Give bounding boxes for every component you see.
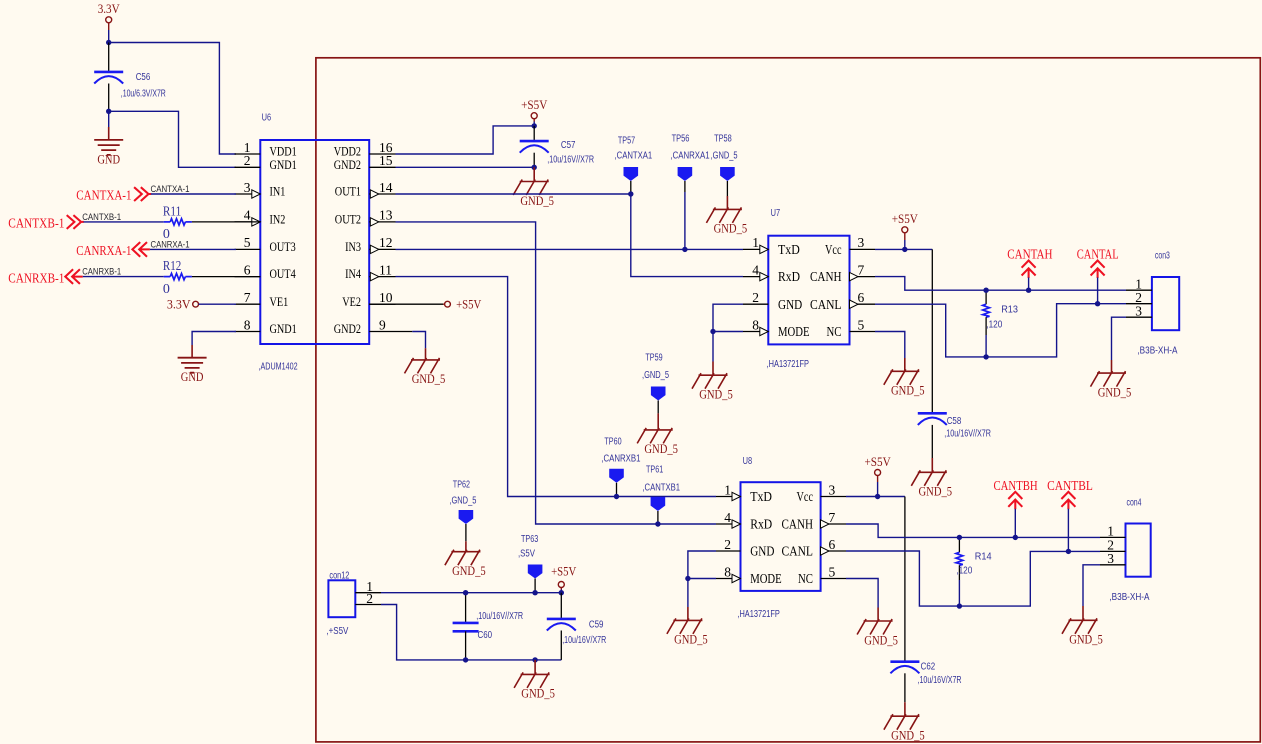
wire U6 pin8 to GND — [192, 332, 236, 346]
U6 right pin stubs and numbers — [369, 153, 395, 155]
svg-text:TP58: TP58 — [714, 133, 732, 144]
svg-text:IN1: IN1 — [270, 185, 286, 199]
svg-text:15: 15 — [379, 153, 393, 168]
svg-text:7: 7 — [244, 290, 251, 305]
wire U8 CANL detour to con4 pin2 — [846, 551, 1100, 606]
svg-text:MODE: MODE — [750, 571, 782, 586]
svg-text:CANTXB-1: CANTXB-1 — [8, 215, 64, 230]
svg-text:TxD: TxD — [750, 489, 772, 504]
svg-text:9: 9 — [379, 317, 386, 332]
svg-text:C57: C57 — [561, 140, 576, 151]
svg-text:3: 3 — [244, 180, 251, 195]
wire U6 pin12 to U7 TxD with TP56 tap — [396, 248, 744, 250]
svg-text:CANTBL: CANTBL — [1047, 478, 1093, 493]
svg-text:OUT3: OUT3 — [270, 240, 296, 254]
wire 3.3V to C56 and U6 pin1 — [108, 30, 110, 43]
svg-text:+S5V: +S5V — [892, 211, 919, 226]
svg-text:IN3: IN3 — [345, 240, 361, 254]
svg-text:IN2: IN2 — [270, 213, 286, 227]
node C60 top — [463, 590, 468, 595]
svg-text:,10u/16V//X7R: ,10u/16V//X7R — [944, 429, 991, 440]
svg-text:R14: R14 — [975, 551, 992, 562]
node +S5V junction (con12) — [559, 590, 564, 595]
svg-text:VE2: VE2 — [342, 295, 361, 309]
svg-text:GND: GND — [778, 297, 802, 312]
svg-text:1: 1 — [724, 482, 731, 497]
con4 pin 1 — [1100, 536, 1126, 538]
svg-text:14: 14 — [379, 180, 393, 195]
ground GND_5 (TP58) — [726, 196, 728, 209]
svg-text:2: 2 — [244, 153, 251, 168]
wire con12 pin2 rail GND — [381, 605, 561, 660]
svg-text:GND_5: GND_5 — [891, 383, 925, 398]
ground GND_5 (C62) — [904, 702, 906, 716]
svg-text:TP57: TP57 — [618, 135, 636, 146]
svg-text:R12: R12 — [163, 258, 181, 273]
node +S5V/C57 junction — [532, 123, 537, 128]
svg-text:C60: C60 — [478, 630, 493, 641]
ground GND (U6 pin8) — [178, 358, 207, 373]
svg-text:TP63: TP63 — [521, 534, 539, 545]
node R14 top — [957, 535, 962, 540]
U6 pin 14 output arrow — [370, 190, 379, 198]
ground GND_5 (C58) — [931, 458, 933, 472]
con3 pin 1 — [1126, 289, 1152, 291]
resistor R14 — [958, 537, 960, 552]
U6 pin 13 output arrow — [370, 218, 379, 226]
node CANTAH junction — [1026, 288, 1031, 293]
svg-text:5: 5 — [244, 235, 251, 250]
svg-text:CANTXB-1: CANTXB-1 — [82, 212, 121, 222]
svg-text:,CANRXA1: ,CANRXA1 — [670, 151, 710, 162]
capacitor C58 — [918, 413, 947, 425]
wire U6 pin16 to +S5V — [396, 126, 535, 154]
svg-text:GND_5: GND_5 — [891, 728, 925, 743]
node Vcc/+S5V junction — [902, 247, 907, 252]
svg-text:GND1: GND1 — [270, 322, 297, 336]
wire R12 to U6 pin6 — [192, 276, 260, 278]
wire Vcc down to C62 — [904, 497, 906, 662]
wire U8 CANH to con4 pin1 — [846, 524, 1100, 537]
svg-text:GND: GND — [97, 152, 120, 166]
svg-text:4: 4 — [244, 208, 251, 223]
ground GND_5 (C57) — [533, 167, 535, 181]
resistor R12 — [164, 276, 171, 278]
node Vcc/+S5V junction (U8) — [875, 494, 880, 499]
wire U7 NC to GND_5 — [875, 332, 905, 359]
svg-text:CANRXB-1: CANRXB-1 — [82, 267, 121, 277]
con3 pin 2 — [1126, 303, 1152, 305]
svg-text:8: 8 — [244, 317, 251, 332]
svg-text:,B3B-XH-A: ,B3B-XH-A — [1137, 345, 1177, 356]
svg-text:RxD: RxD — [778, 269, 800, 284]
op-amp U6 (digital isolator ADUM1402) — [260, 140, 369, 344]
svg-text:,CANTXA1: ,CANTXA1 — [615, 151, 653, 162]
svg-text:U6: U6 — [262, 112, 272, 123]
capacitor C56 — [108, 43, 110, 71]
svg-text:GND_5: GND_5 — [412, 371, 446, 386]
ground GND_5 (TP59) — [637, 428, 673, 444]
svg-text:+S5V: +S5V — [551, 564, 577, 579]
svg-text:3: 3 — [858, 235, 865, 250]
svg-text:con12: con12 — [329, 570, 349, 581]
svg-text:GND_5: GND_5 — [919, 484, 953, 499]
ground GND (C56) — [108, 111, 110, 127]
wire U8 Vcc — [846, 496, 905, 498]
svg-text:NC: NC — [827, 324, 842, 339]
svg-text:,CANRXB1: ,CANRXB1 — [601, 454, 641, 465]
wire net CANTXA-1 — [151, 193, 236, 195]
svg-text:OUT4: OUT4 — [270, 267, 297, 281]
svg-text:OUT2: OUT2 — [335, 213, 361, 227]
svg-text:R13: R13 — [1001, 304, 1018, 315]
svg-text:GND: GND — [181, 370, 204, 384]
svg-text:6: 6 — [244, 262, 251, 277]
node C57 bottom junction — [532, 165, 537, 170]
ground GND_5 (U8 GND/MODE) — [667, 618, 703, 634]
ground GND_5 (U6 pin9) — [405, 358, 441, 374]
svg-text:6: 6 — [829, 537, 836, 552]
svg-text:0: 0 — [163, 282, 170, 297]
svg-text:GND2: GND2 — [334, 158, 361, 172]
svg-text:CANL: CANL — [782, 544, 814, 559]
node TP61 junction — [655, 521, 660, 526]
svg-text:,10u/16V//X7R: ,10u/16V//X7R — [476, 611, 523, 622]
svg-text:MODE: MODE — [778, 324, 810, 339]
node GND_5 rail junction — [532, 657, 537, 662]
svg-text:TP62: TP62 — [453, 479, 471, 490]
svg-text:CANH: CANH — [782, 517, 814, 532]
svg-text:4: 4 — [752, 262, 759, 277]
svg-text:GND1: GND1 — [270, 158, 297, 172]
svg-text:,120: ,120 — [986, 319, 1002, 330]
svg-text:5: 5 — [858, 317, 865, 332]
U6 pin 11 output arrow — [370, 272, 379, 280]
svg-text:IN4: IN4 — [345, 267, 362, 281]
node C56 bottom junction — [106, 109, 111, 114]
op-amp U7 (CAN transceiver HA13721FP) — [768, 236, 849, 345]
connector con12 — [328, 580, 355, 617]
svg-text:C62: C62 — [921, 661, 936, 672]
wire Vcc down to C58 — [931, 249, 933, 413]
connector con3 — [1152, 277, 1179, 330]
node CANTAL junction — [1095, 301, 1100, 306]
svg-text:3: 3 — [1135, 304, 1142, 319]
resistor R11 — [164, 221, 171, 223]
node CANTBL junction — [1066, 549, 1071, 554]
svg-text:5: 5 — [829, 564, 836, 579]
con12 pin 2 — [355, 604, 381, 606]
svg-text:2: 2 — [752, 290, 759, 305]
svg-text:,+S5V: ,+S5V — [326, 626, 348, 637]
svg-text:12: 12 — [379, 235, 393, 250]
svg-text:TP59: TP59 — [645, 353, 663, 364]
svg-text:1: 1 — [1107, 524, 1114, 539]
node TP57 junction — [628, 191, 633, 196]
U6 pin 4 input arrow — [252, 218, 260, 226]
svg-text:,HA13721FP: ,HA13721FP — [737, 609, 780, 620]
svg-text:,S5V: ,S5V — [518, 549, 535, 560]
node TP56 junction — [682, 247, 687, 252]
svg-text:TP61: TP61 — [646, 464, 664, 475]
op-amp U8 (CAN transceiver HA13721FP) — [741, 482, 821, 591]
node R13 top — [983, 288, 988, 293]
wire U7 Vcc — [875, 248, 932, 250]
svg-text:,ADUM1402: ,ADUM1402 — [259, 362, 298, 373]
ground GND_5 (U7 GND/MODE) — [692, 373, 728, 389]
svg-text:2: 2 — [366, 591, 373, 606]
capacitor C60 — [465, 593, 467, 623]
wire net CANTXB-1 to R11 — [84, 221, 164, 223]
svg-text:GND_5: GND_5 — [1098, 384, 1132, 399]
U6 left pin stubs and numbers — [235, 153, 261, 155]
svg-text:GND_5: GND_5 — [644, 441, 678, 456]
svg-text:,10u/16V/X7R: ,10u/16V/X7R — [918, 675, 962, 686]
svg-text:4: 4 — [724, 510, 731, 525]
node C60 bottom — [463, 657, 468, 662]
svg-text:3: 3 — [829, 482, 836, 497]
svg-text:,10u/6.3V/X7R: ,10u/6.3V/X7R — [121, 89, 166, 100]
wire U6 pin9 to GND_5 — [396, 331, 413, 333]
node 3.3V/C56 junction — [106, 40, 111, 45]
ground GND_5 (U8 NC) — [857, 619, 893, 635]
wire U7 CANH to con3 pin1 — [875, 277, 1126, 291]
connector con4 — [1126, 524, 1151, 577]
capacitor C59 — [560, 593, 562, 619]
ground GND_5 (con12 rail) — [534, 660, 536, 675]
resistor R13 — [985, 290, 987, 304]
svg-text:con4: con4 — [1127, 497, 1142, 508]
node TP60 junction — [614, 494, 619, 499]
svg-text:1: 1 — [752, 235, 759, 250]
svg-text:GND_5: GND_5 — [674, 632, 708, 647]
svg-text:,CANTXB1: ,CANTXB1 — [642, 482, 680, 493]
svg-text:13: 13 — [379, 208, 393, 223]
svg-text:con3: con3 — [1155, 250, 1170, 261]
svg-text:11: 11 — [379, 262, 392, 277]
svg-text:CANTXA-1: CANTXA-1 — [76, 188, 131, 203]
svg-text:+S5V: +S5V — [865, 454, 892, 469]
wire U7 CANL detour to con3 pin2 — [875, 304, 1126, 357]
svg-text:,GND_5: ,GND_5 — [642, 370, 669, 381]
node CANTBH junction — [1013, 535, 1018, 540]
wire U6 pin14 to U7 RxD with TP57 tap — [396, 194, 744, 277]
svg-text:8: 8 — [724, 564, 731, 579]
svg-text:CANL: CANL — [810, 297, 842, 312]
svg-text:GND_5: GND_5 — [699, 387, 733, 402]
svg-text:C56: C56 — [136, 72, 151, 83]
wire con12 pin1 rail +S5V — [381, 592, 561, 594]
svg-text:CANRXB-1: CANRXB-1 — [8, 270, 64, 285]
svg-text:TP56: TP56 — [672, 133, 690, 144]
svg-text:GND_5: GND_5 — [1069, 632, 1103, 647]
svg-text:,HA13721FP: ,HA13721FP — [767, 359, 810, 370]
svg-text:C58: C58 — [947, 416, 962, 427]
svg-text:NC: NC — [798, 571, 813, 586]
svg-text:,10u/16V//X7R: ,10u/16V//X7R — [547, 155, 594, 166]
svg-text:CANTAH: CANTAH — [1007, 247, 1053, 262]
svg-text:TP60: TP60 — [604, 436, 622, 447]
wire U6 pin13 down to U8 RxD — [396, 222, 717, 524]
svg-text:GND_5: GND_5 — [864, 632, 898, 647]
svg-text:3.3V: 3.3V — [167, 297, 191, 312]
power symbol +S5V (U6 pin10) — [369, 303, 443, 305]
svg-text:6: 6 — [858, 290, 865, 305]
svg-text:CANRXA-1: CANRXA-1 — [76, 243, 131, 258]
svg-text:U8: U8 — [743, 456, 753, 467]
svg-text:C59: C59 — [589, 619, 604, 630]
svg-text:GND_5: GND_5 — [521, 686, 555, 701]
wire R11 to U6 pin4 — [192, 221, 260, 223]
con4 pin 2 — [1100, 550, 1126, 552]
capacitor C62 — [890, 662, 919, 674]
con12 pin 1 — [355, 592, 381, 594]
svg-text:R11: R11 — [163, 203, 181, 218]
svg-text:GND2: GND2 — [334, 322, 361, 336]
wire con3 pin3 to GND_5 — [1112, 317, 1127, 360]
con4 pin 3 — [1100, 564, 1126, 566]
svg-text:3: 3 — [1107, 551, 1114, 566]
svg-text:CANH: CANH — [810, 269, 842, 284]
svg-text:3.3V: 3.3V — [98, 1, 121, 16]
svg-text:7: 7 — [829, 510, 836, 525]
svg-text:OUT1: OUT1 — [335, 185, 361, 199]
svg-text:TxD: TxD — [778, 242, 800, 257]
svg-text:,GND_5: ,GND_5 — [711, 151, 738, 162]
wire net CANRXA-1 — [150, 248, 236, 250]
svg-text:10: 10 — [379, 290, 393, 305]
svg-text:GND_5: GND_5 — [520, 193, 554, 208]
node R14 bottom — [957, 603, 962, 608]
svg-text:U7: U7 — [771, 208, 781, 219]
svg-text:GND_5: GND_5 — [714, 221, 748, 236]
U6 pin 3 input arrow — [252, 190, 260, 198]
wire U6 pin15 — [396, 166, 535, 168]
wire U6 pin11 down to U8 TxD — [396, 277, 717, 497]
svg-text:Vcc: Vcc — [797, 489, 814, 504]
svg-text:,GND_5: ,GND_5 — [449, 496, 476, 507]
wire net CANRXB-1 to R12 — [83, 276, 164, 278]
wire VE1 — [199, 303, 237, 305]
ground GND_5 (con3) — [1091, 371, 1127, 387]
svg-text:2: 2 — [724, 537, 731, 552]
svg-text:,120: ,120 — [956, 566, 972, 577]
ground GND_5 (U7 NC) — [884, 369, 920, 385]
sheet border frame — [316, 58, 1260, 742]
U6 pin 12 output arrow — [370, 245, 379, 253]
svg-text:VDD1: VDD1 — [270, 145, 297, 159]
ground GND_5 (con4) — [1062, 618, 1098, 634]
svg-text:,10u/16V/X7R: ,10u/16V/X7R — [562, 635, 606, 646]
wire U8 GND/MODE to GND_5 — [688, 551, 716, 579]
wire con4 pin3 to GND_5 — [1083, 565, 1100, 606]
node R13 bottom — [983, 354, 988, 359]
svg-text:7: 7 — [858, 262, 865, 277]
svg-text:RxD: RxD — [750, 517, 772, 532]
ground GND_5 (TP62) — [445, 550, 481, 566]
svg-text:+S5V: +S5V — [456, 297, 482, 312]
capacitor C57 — [533, 126, 535, 140]
con3 pin 3 — [1126, 316, 1152, 318]
svg-text:GND_5: GND_5 — [452, 563, 486, 578]
svg-text:CANRXA-1: CANRXA-1 — [151, 239, 190, 249]
wire U8 NC to GND_5 — [846, 579, 878, 608]
svg-text:CANTXA-1: CANTXA-1 — [151, 184, 190, 194]
wire U7 GND/MODE to GND_5 — [713, 304, 743, 331]
svg-text:VE1: VE1 — [270, 295, 289, 309]
svg-text:8: 8 — [752, 317, 759, 332]
svg-text:GND: GND — [750, 544, 774, 559]
wire C56 bottom to U6 pin2 — [109, 111, 236, 167]
svg-text:+S5V: +S5V — [521, 97, 548, 112]
svg-text:VDD2: VDD2 — [334, 145, 361, 159]
svg-text:Vcc: Vcc — [825, 242, 842, 257]
node TP63 junction — [532, 590, 537, 595]
svg-text:,B3B-XH-A: ,B3B-XH-A — [1109, 592, 1149, 603]
